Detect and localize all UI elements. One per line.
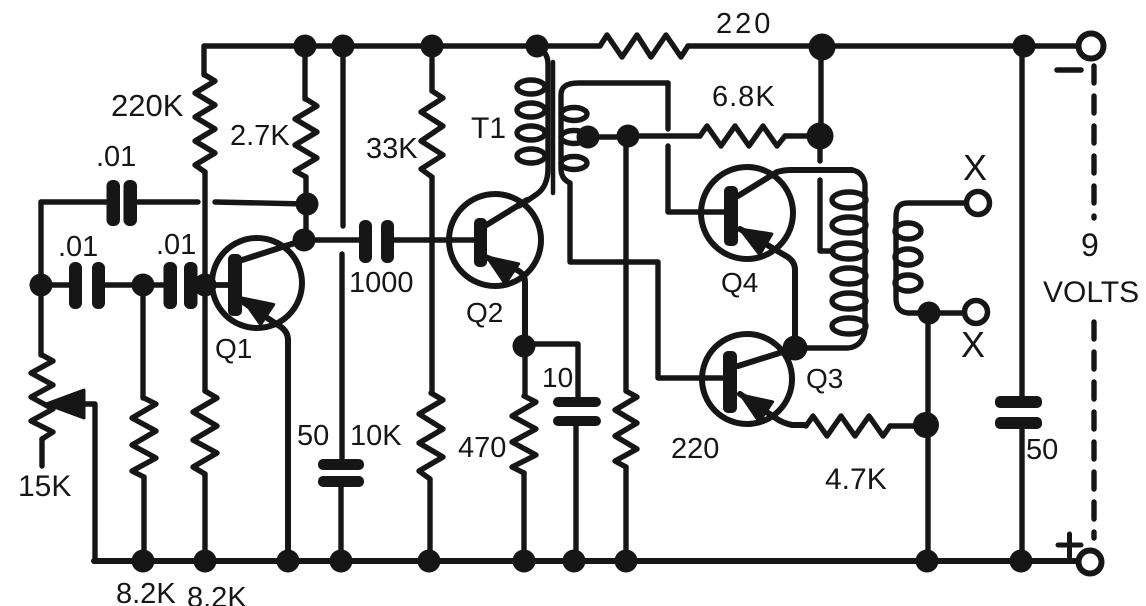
svg-text:15K: 15K bbox=[18, 470, 71, 503]
svg-text:50: 50 bbox=[297, 420, 329, 452]
capacitor 50 (left, rail bypass) bbox=[318, 46, 364, 561]
capacitor .01 (right) bbox=[164, 262, 229, 309]
node Q2 emitter bbox=[513, 335, 536, 358]
transistor Q2 bbox=[449, 194, 541, 346]
svg-text:T1: T1 bbox=[471, 112, 506, 145]
node rail 50cap bbox=[330, 550, 353, 573]
svg-text:220K: 220K bbox=[111, 88, 184, 123]
svg-text:220: 220 bbox=[716, 8, 773, 40]
node top rail 33K bbox=[421, 35, 444, 58]
terminal X top bbox=[967, 192, 990, 215]
svg-text:X: X bbox=[963, 147, 987, 188]
svg-text:33K: 33K bbox=[366, 133, 418, 165]
capacitor 1000 bbox=[304, 220, 474, 263]
node Q1 collector bbox=[293, 229, 316, 252]
svg-text:.01: .01 bbox=[156, 229, 196, 261]
svg-text:8.2K: 8.2K bbox=[187, 582, 247, 606]
svg-text:8.2K: 8.2K bbox=[116, 578, 176, 606]
terminal plus (bottom right) bbox=[1079, 551, 1102, 574]
svg-text:10K: 10K bbox=[350, 420, 402, 452]
node Q1 base bbox=[194, 274, 217, 297]
svg-text:Q1: Q1 bbox=[215, 333, 252, 364]
node rail 50cap right bbox=[1010, 550, 1033, 573]
node 6.8K right bbox=[807, 123, 834, 150]
transistor Q4 bbox=[701, 167, 852, 348]
node rail 8.2K second bbox=[194, 550, 217, 573]
wire bottom rail bbox=[94, 558, 1079, 564]
node 2.7K bottom bbox=[296, 193, 319, 216]
capacitor .01 (top feedback) bbox=[41, 202, 306, 204]
wire 2.7K node to Q1 collector node bbox=[303, 204, 308, 240]
capacitor .01 (left) bbox=[41, 262, 163, 309]
wire top rail right segment bbox=[688, 43, 1078, 48]
svg-text:220: 220 bbox=[671, 433, 719, 465]
wire 6.8K node to top rail bbox=[818, 47, 823, 136]
wire top rail left segment bbox=[204, 43, 600, 48]
resistor 470 bbox=[512, 346, 536, 561]
svg-text:470: 470 bbox=[458, 432, 506, 464]
node input left bbox=[30, 274, 53, 297]
svg-text:X: X bbox=[961, 324, 985, 365]
resistor 6.8K bbox=[628, 126, 820, 146]
node 4.7K right bbox=[913, 412, 939, 438]
svg-text:1000: 1000 bbox=[349, 267, 414, 299]
resistor 8.2K (second) bbox=[193, 285, 217, 561]
potentiometer 15K bbox=[31, 285, 95, 561]
resistor 33K bbox=[421, 46, 443, 177]
svg-text:Q4: Q4 bbox=[721, 267, 758, 298]
wire 6.8K node down to coil tap bbox=[820, 146, 833, 251]
resistor 220K bbox=[195, 46, 215, 285]
svg-text:Q2: Q2 bbox=[466, 297, 503, 328]
resistor 4.7K bbox=[806, 416, 926, 436]
resistor 8.2K (first) bbox=[132, 285, 156, 561]
capacitor 10 bbox=[524, 344, 601, 561]
node rail 8.2K first bbox=[132, 550, 155, 573]
transistor Q3 bbox=[702, 334, 806, 425]
node Q4 emitter / Q3 collector bbox=[783, 336, 808, 361]
svg-text:9: 9 bbox=[1081, 227, 1099, 263]
node rail 10cap bbox=[563, 550, 586, 573]
node T1 tap right bbox=[617, 125, 640, 148]
svg-text:VOLTS: VOLTS bbox=[1043, 276, 1139, 309]
output coil winding bbox=[895, 203, 966, 313]
svg-text:50: 50 bbox=[1026, 434, 1058, 466]
node rail Q1 emitter bbox=[277, 550, 300, 573]
terminal minus (top right) bbox=[1079, 34, 1104, 59]
terminal X bottom bbox=[965, 301, 988, 324]
svg-text:2.7K: 2.7K bbox=[230, 120, 290, 152]
battery dashed line bbox=[1091, 66, 1096, 218]
node rail 470 bbox=[513, 550, 536, 573]
node top rail 50cap right bbox=[1013, 35, 1036, 58]
svg-text:Q3: Q3 bbox=[806, 363, 843, 394]
node top rail 220/6.8K bbox=[809, 34, 836, 61]
node top rail 50cap bbox=[332, 35, 355, 58]
capacitor 50 (right) bbox=[995, 46, 1042, 561]
node rail 4.7K bbox=[916, 550, 939, 573]
transformer T1 secondary winding bbox=[561, 83, 722, 378]
node X bottom bbox=[918, 302, 941, 325]
svg-text:4.7K: 4.7K bbox=[825, 463, 887, 496]
resistor 2.7K bbox=[295, 46, 317, 204]
transformer T1 core bbox=[551, 62, 556, 193]
node T1 tap left bbox=[577, 126, 600, 149]
minus sign bbox=[1057, 67, 1081, 73]
node top rail 2.7K bbox=[294, 35, 317, 58]
svg-text:.01: .01 bbox=[58, 231, 98, 263]
node rail 10K bbox=[418, 550, 441, 573]
transformer T1 primary winding bbox=[517, 46, 548, 206]
wire Q4 base elbow bbox=[668, 83, 724, 212]
wire 33K to 10K bbox=[429, 177, 434, 393]
svg-text:10: 10 bbox=[542, 362, 573, 393]
wire X node to 4.7K node to bottom rail bbox=[925, 313, 930, 561]
svg-text:.01: .01 bbox=[96, 141, 136, 173]
resistor 220 (mid) bbox=[615, 136, 637, 561]
svg-text:6.8K: 6.8K bbox=[712, 81, 776, 113]
resistor R 220 (top rail) bbox=[600, 35, 688, 57]
transistor Q1 bbox=[205, 238, 302, 561]
wire T1 secondary tap bbox=[588, 134, 628, 139]
wire left input vertical bbox=[38, 202, 43, 285]
node rail 220mid bbox=[615, 550, 638, 573]
node cap junction bbox=[132, 274, 155, 297]
resistor 10K bbox=[419, 393, 443, 561]
oscillator coil winding bbox=[797, 170, 866, 348]
node top rail T1 bbox=[526, 35, 549, 58]
plus sign bbox=[1058, 534, 1081, 557]
